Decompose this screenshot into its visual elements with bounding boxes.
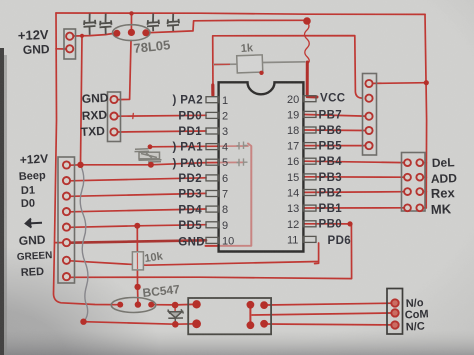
wire: +12V drop to 8pin row1 [81, 36, 83, 165]
capacitor C3 [147, 14, 159, 32]
wire: collector to relay coil top [154, 303, 193, 306]
wire: PB6 to ISP pin4 [305, 129, 365, 132]
wire: row8 RED to PB0 riser [70, 224, 352, 279]
wire: row5 arrow to PD5 pin9 [70, 225, 206, 228]
wire: ISP top pin to right rail [373, 82, 427, 85]
wire: PD6 pin11 drop [315, 243, 319, 264]
dots relay pins [192, 300, 200, 308]
dot rail/78L05 junction [129, 11, 133, 15]
arrow label [26, 219, 42, 228]
handwritten relay out labels [405, 297, 429, 333]
wire: RXD to PD0 pin2 [118, 114, 207, 117]
handwritten labels left top [18, 27, 51, 57]
dot +12V branch [80, 34, 84, 38]
wire: 10k from PD5 line down to base [136, 226, 139, 302]
resistor R1 1k body [237, 55, 263, 73]
dot xtal PA0 [148, 162, 154, 168]
J3 pins 1-8 [63, 161, 70, 168]
wire: PB5 to ISP pin5 [305, 145, 365, 147]
IC right pin labels [319, 93, 352, 248]
resistor R1 leads [213, 62, 306, 65]
wire: relay no wire [267, 303, 391, 305]
dot ISP rail junction [424, 80, 429, 85]
resistor R2 10k body [132, 252, 143, 270]
connector pin rings [63, 33, 423, 329]
wire: 78L05 gnd down to serial GND [118, 41, 131, 100]
red junction dots [77, 11, 429, 329]
wire: pin1 riser and run to ISP pin2 [213, 36, 362, 99]
handwritten serial labels [80, 91, 109, 139]
IC U1 AT89C2051 body [219, 82, 304, 251]
wire: PB1 to key MK [305, 207, 404, 209]
IC pin boxes [206, 96, 316, 244]
dot PD5 10k junction [134, 223, 140, 229]
wire: +12V red to relay coil bottom [84, 322, 197, 325]
dot 10k bottom [134, 284, 140, 290]
capacitor C4 [167, 14, 179, 31]
regulator 78L05 outline [113, 25, 150, 41]
relay K1 box [188, 298, 271, 334]
pencil labels [133, 37, 255, 300]
svg-text:1k: 1k [240, 42, 254, 55]
wire: relay nc wire [267, 323, 391, 326]
wire: left ground rail [54, 13, 118, 305]
wire: 78L05 output to VCC squiggle [146, 20, 305, 33]
connector J3 8-pin box [58, 157, 75, 283]
wire: row3 D1 to PD3 pin7 [70, 193, 206, 196]
wire: 78L05 gnd up to rail [130, 13, 132, 32]
J4 pins 1-5 [365, 80, 372, 87]
paper grain [0, 0, 1, 1]
wire: +12V pin to 78L05 input [74, 33, 114, 36]
dot 1k corner [259, 71, 263, 75]
wire: right ground rail down to keys connector [425, 14, 427, 208]
connector J5 keys 4x2 box [402, 153, 426, 212]
wire: gnd rail to 2pin GND pin [56, 48, 66, 50]
wire: key right column to rail [423, 163, 427, 208]
IC pin numbers [222, 94, 299, 248]
IC left pin labels [172, 95, 205, 249]
J2 pins GND RXD TXD [110, 96, 117, 103]
wire: PB3 to key ADD [305, 176, 404, 178]
transistor Q1 BC547 outline [111, 298, 156, 313]
connector J1 +12V/GND box [64, 29, 76, 59]
paper left edge shadow [0, 48, 4, 355]
wire: top ground rail [56, 13, 425, 14]
capacitor C1 [84, 14, 96, 35]
dots 78L05 pins [113, 30, 120, 37]
handwritten key labels [431, 155, 458, 217]
wire: row4 D0 to PD4 pin8 [70, 209, 206, 212]
dot PB0 arrow [347, 221, 352, 226]
dot vcc top [303, 17, 311, 25]
xtal caps inside IC pencil [237, 142, 248, 167]
dots BC547 pins [117, 302, 123, 308]
diode D1 symbol [168, 309, 184, 322]
wire: row1 +12V / PA0 line to pin5 [70, 163, 206, 166]
wire: PA1 into IC [150, 145, 206, 148]
wire: TXD to PD1 pin3 [118, 131, 207, 132]
dot +12V relay corner [80, 319, 86, 325]
wire: PB4 to key DEL [305, 161, 404, 162]
wire: VCC thick drop to pin20 [307, 62, 317, 97]
wire: VCC squiggle (wavy) [305, 22, 310, 64]
pencil +12V wavy drop to relay [80, 166, 88, 320]
wire: red loop inside IC to pin10 [206, 144, 252, 246]
wire: relay switch bar [249, 306, 251, 324]
wire: row6 GND to pin10 (thick) [70, 240, 206, 242]
wire: row2 Beep to PD2 pin6 [70, 178, 206, 181]
wire: gnd rail to 8pin GND row [55, 242, 63, 244]
J6 pins [391, 299, 398, 306]
dots diode ends [172, 302, 179, 309]
J5 pins 4x2 [404, 159, 411, 166]
dot +12V row1 junction [77, 162, 83, 168]
wire: PB0 strikethrough [305, 223, 351, 225]
connector J2 serial box [108, 92, 121, 142]
wire: diode stubs [174, 305, 176, 324]
wire: xtal caps inside IC [206, 146, 248, 163]
wire: stray tick on PD0 [132, 113, 135, 118]
wire: PB7 to ISP pin3 [305, 115, 365, 117]
connector J4 ISP 5-pin box [363, 74, 377, 156]
dot PA1 end [148, 144, 153, 149]
crystal X1 pencil [135, 149, 162, 162]
wire: PB2 to key REX [305, 191, 404, 194]
wire: row7 GREEN to PD6 pin11 [70, 261, 318, 265]
capacitor C2 [100, 14, 112, 35]
handwritten labels left column [17, 152, 53, 279]
J1 pins [66, 33, 73, 40]
wire: relay com wire [252, 313, 391, 315]
connector J6 relay out box [387, 289, 403, 335]
